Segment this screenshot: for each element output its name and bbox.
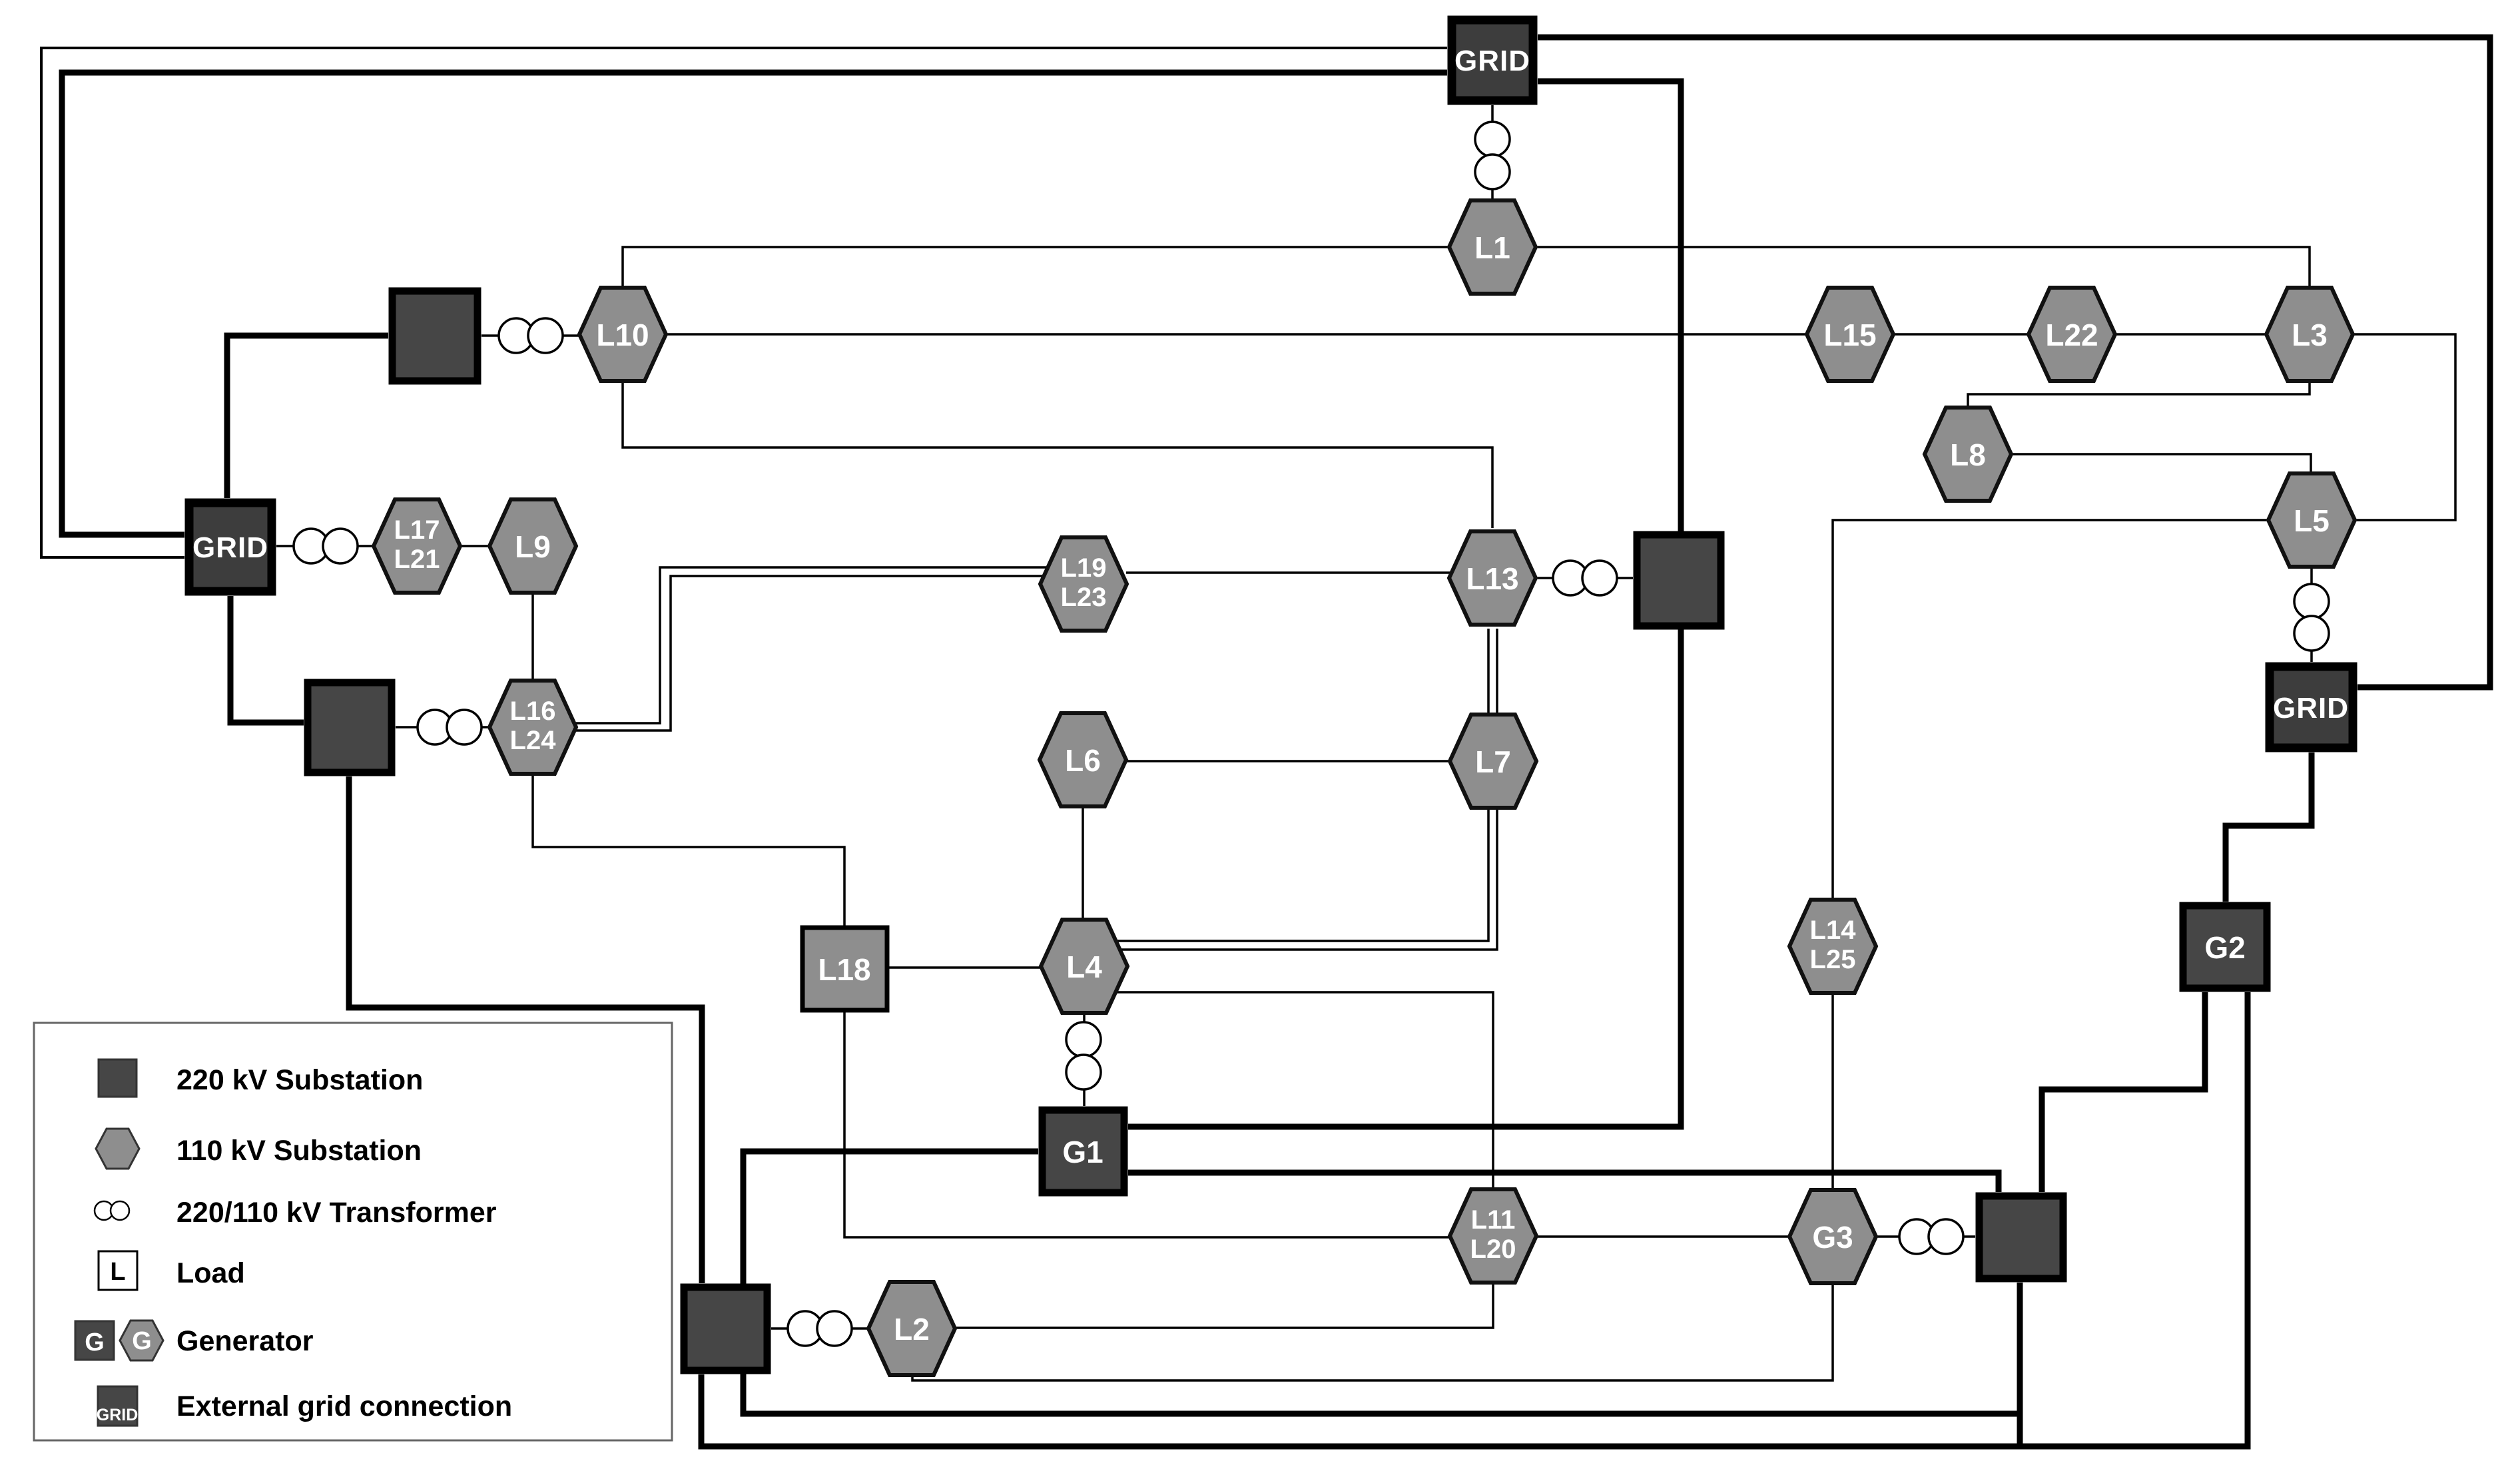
svg-text:110 kV Substation: 110 kV Substation: [176, 1135, 422, 1167]
220 kV substation S4 (bottom left, feeds L2): [684, 1287, 767, 1370]
load L18 (gray square): [802, 928, 887, 1010]
svg-text:G2: G2: [2204, 930, 2245, 965]
generator G2: [2183, 906, 2267, 988]
220 kV substation S2: [308, 683, 392, 772]
wire L3 right to L5 right: [2352, 334, 2455, 520]
wire G2 bottom-right to bottom bus to S5 bottom: [701, 992, 2248, 1446]
svg-text:Load: Load: [176, 1257, 245, 1289]
wire double circuit L13 bottom to L7 top, line b: [1496, 629, 1498, 715]
svg-text:220 kV Substation: 220 kV Substation: [176, 1064, 423, 1096]
wire double circuit L7 bottom to L4 right, line b: [1105, 807, 1497, 950]
external grid connection GRID-right: [2270, 667, 2353, 748]
transformer T7 L4 to G1: [1066, 1022, 1101, 1057]
wire L18 right to L4 left: [889, 966, 1041, 969]
110 kV substation L2: [868, 1282, 955, 1375]
wire GRID-right bottom to G2 top: [2226, 752, 2312, 902]
220 kV substation S6 (right of G3): [1979, 1196, 2063, 1279]
svg-text:L10: L10: [596, 318, 649, 352]
wire L19/L23 right to L13 left: [1126, 571, 1458, 574]
110 kV substation L14/L25: [1789, 900, 1876, 993]
wire L11/L20 bottom to L2 right: [956, 1279, 1493, 1328]
wire L13 right to transformer T9 to S3 left: [1535, 577, 1633, 579]
110 kV substation L8: [1925, 408, 2011, 501]
220 kV substation S3 (right of L13): [1637, 535, 1721, 626]
svg-text:L18: L18: [818, 952, 870, 987]
110 kV substation L16/L24: [489, 681, 576, 774]
wire L5 left to L14/L25 top: [1833, 520, 2269, 904]
wire GRID-top right to GRID-right via top/right border: [1538, 37, 2490, 687]
svg-text:GRID: GRID: [1454, 45, 1530, 77]
legend external grid icon: [98, 1386, 137, 1426]
svg-text:L8: L8: [1950, 438, 1986, 472]
svg-text:Generator: Generator: [176, 1325, 314, 1357]
wire L6 bottom to L4 top: [1082, 805, 1084, 919]
svg-text:GRID: GRID: [192, 531, 268, 564]
svg-text:L14: L14: [1810, 916, 1857, 945]
wire L10 right to L15 left: [665, 333, 1807, 336]
transformer T1 GRID-top to L1: [1475, 122, 1510, 156]
110 kV substation L11/L20: [1450, 1189, 1536, 1283]
svg-text:L4: L4: [1066, 950, 1102, 984]
svg-text:L15: L15: [1823, 318, 1876, 352]
wire GRID-left right to transformer T4 to L17/L21 left: [276, 545, 374, 547]
generator G3 (110 kV): [1789, 1190, 1876, 1283]
svg-text:L11: L11: [1471, 1205, 1516, 1235]
wire L3 bottom to L8 top: [1968, 382, 2310, 408]
svg-text:L22: L22: [2045, 318, 2098, 352]
110 kV substation L7: [1450, 715, 1536, 808]
wire outer thin loop: GRID-left to GRID-top via left/top border: [41, 48, 1447, 557]
wire L8 right to L5 top: [2009, 454, 2311, 477]
external grid connection GRID-left: [189, 503, 272, 591]
svg-text:L24: L24: [510, 726, 557, 755]
wire GRID-left bottom to S2 left: [230, 596, 304, 723]
wire L14/L25 bottom to G3 top: [1831, 990, 1834, 1192]
svg-text:GRID: GRID: [97, 1406, 139, 1424]
wire G1 left down and right to S6 bottom line: [743, 1151, 2020, 1414]
110 kV substation L3: [2266, 288, 2353, 381]
wire GRID-top to transformer T1 to L1: [1491, 105, 1494, 203]
svg-text:L2: L2: [894, 1312, 930, 1346]
wire S1 left to GRID-left top: [227, 336, 388, 498]
legend generator icons: [75, 1321, 114, 1360]
wire L6 right to L7 left: [1127, 760, 1450, 762]
wire GRID-top to G1 via 220kV substation S3: [1128, 81, 1681, 1127]
110 kV substation L13: [1449, 531, 1536, 625]
generator G1: [1042, 1110, 1124, 1193]
legend load icon: [99, 1251, 137, 1290]
wire L1 left to L10 top: [623, 247, 1450, 289]
wire L9 bottom to L16/L24 top: [531, 595, 534, 683]
wire S2 right to transformer T5 to L16/L24 left: [396, 726, 490, 729]
svg-text:GRID: GRID: [2273, 692, 2349, 725]
svg-text:L21: L21: [394, 545, 440, 574]
svg-text:L25: L25: [1810, 945, 1856, 974]
svg-text:L: L: [110, 1258, 125, 1286]
wire L11/L20 right to G3 left: [1534, 1235, 1791, 1238]
wire L22 right to L3 left: [2114, 333, 2267, 336]
wire L15 right to L22 left: [1893, 333, 2030, 336]
svg-text:L19: L19: [1061, 553, 1107, 583]
wire S1 right to transformer T3 to L10 left: [481, 334, 580, 337]
wire double circuit L13 bottom to L7 top, line a: [1487, 629, 1490, 715]
svg-text:G3: G3: [1812, 1220, 1853, 1255]
svg-text:G1: G1: [1062, 1135, 1103, 1169]
wire L4 bottom to transformer T7 to G1 top: [1083, 1014, 1086, 1106]
110 kV substation L22: [2029, 288, 2115, 381]
legend 220 kV substation icon: [99, 1059, 137, 1097]
svg-text:220/110 kV Transformer: 220/110 kV Transformer: [176, 1197, 497, 1229]
svg-text:L23: L23: [1061, 583, 1107, 612]
svg-text:L20: L20: [1470, 1235, 1516, 1264]
wire S4 right to transformer T8 to L2 left: [771, 1327, 869, 1330]
wire G3 right to transformer T6 to S6 left: [1875, 1235, 1975, 1238]
transformer T6 G3 to S6: [1899, 1219, 1934, 1254]
svg-text:L1: L1: [1474, 230, 1510, 265]
220 kV substation S1: [392, 291, 477, 381]
110 kV substation L15: [1807, 288, 1893, 381]
110 kV substation L1: [1449, 200, 1536, 294]
wire L17/L21 right to L9 left: [460, 545, 490, 547]
wire double circuit L16/L24 right to L19/L23 left, line b: [566, 576, 1059, 731]
transformer T9 L13 to S3: [1553, 561, 1588, 595]
transformer T8 S4 to L2: [788, 1311, 822, 1346]
110 kV substation L6: [1040, 713, 1126, 806]
svg-text:L13: L13: [1466, 561, 1518, 596]
svg-text:G: G: [132, 1327, 152, 1355]
legend 110 kV substation icon: [96, 1129, 139, 1169]
svg-text:L17: L17: [394, 515, 440, 545]
transformer T4 GRID-left to L17/L21: [294, 529, 328, 563]
transformer T2 L5 to GRID-right: [2294, 584, 2329, 619]
110 kV substation L17/L21: [374, 499, 460, 593]
legend transformer icon: [95, 1201, 113, 1220]
wire L16/L24 bottom to L18 top: [533, 775, 844, 926]
wire S2 bottom to S4 top: [349, 776, 702, 1283]
110 kV substation L19/L23: [1040, 537, 1127, 631]
svg-text:L7: L7: [1475, 744, 1511, 779]
svg-text:L9: L9: [515, 529, 551, 564]
external grid connection GRID-top: [1452, 20, 1533, 101]
wire inner thick loop: GRID-left to GRID-top: [62, 73, 1447, 535]
svg-text:External grid connection: External grid connection: [176, 1390, 512, 1422]
wire S6 bottom to bottom bus: [2017, 1283, 2023, 1446]
wire L5 bottom to transformer T2 to GRID-right top: [2310, 564, 2313, 662]
110 kV substation L9: [489, 499, 576, 593]
wire L2 bottom to G3 bottom: [912, 1281, 1833, 1380]
legend box: [34, 1023, 672, 1440]
wire L1 right to L3 top: [1535, 247, 2310, 288]
wire G2 bottom-left to substation S6 top: [2042, 992, 2205, 1192]
wire L10 bottom to L13 top: [623, 379, 1492, 528]
svg-text:L6: L6: [1065, 743, 1101, 778]
110 kV substation L5: [2268, 473, 2355, 567]
svg-text:L5: L5: [2294, 503, 2330, 538]
110 kV substation L10: [579, 288, 666, 381]
wire double circuit L7 bottom to L4 right, line a: [1105, 807, 1488, 941]
transformer T3 S1 to L10: [499, 318, 533, 353]
svg-text:L16: L16: [510, 697, 556, 726]
wire L18 bottom to L11/L20 left: [844, 1012, 1452, 1237]
110 kV substation L4: [1041, 920, 1127, 1013]
wire L4 lower-right to L11/L20 top: [1099, 992, 1493, 1193]
wire G1 lower-right to S6 top: [1128, 1173, 1999, 1192]
transformer T5 S2 to L16/L24: [418, 710, 452, 744]
svg-text:L3: L3: [2292, 318, 2328, 352]
svg-text:G: G: [85, 1328, 105, 1356]
wire double circuit L16/L24 right to L19/L23 left, line a: [566, 567, 1059, 723]
